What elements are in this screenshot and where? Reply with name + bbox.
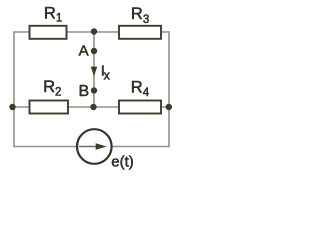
node: middle junction [90,104,96,110]
wire: right vertical [168,31,170,147]
node: right middle junction [166,104,172,110]
resistor R3 [119,5,161,39]
node: top junction [91,28,97,34]
svg-text:R2: R2 [43,78,61,98]
resistor R4 [119,79,161,114]
svg-text:A: A [79,42,89,59]
node: left middle junction [9,104,15,110]
svg-text:B: B [79,83,90,100]
resistor R2 [30,78,69,114]
current arrow Ix [91,67,98,77]
wire: left vertical [13,31,15,147]
svg-text:Ix: Ix [101,62,111,82]
wire: center vertical A-B branch [93,32,95,107]
svg-text:e(t): e(t) [111,154,134,171]
wire: middle horizontal net [13,106,169,108]
resistor R1 [30,5,67,39]
svg-text:R1: R1 [44,5,62,25]
svg-text:R3: R3 [131,5,149,26]
wire: bottom horizontal net [14,146,169,148]
wire: top horizontal net [14,31,169,33]
svg-text:R4: R4 [131,79,150,99]
node B [91,87,97,93]
node A [91,48,97,54]
current source e(t) [77,129,134,170]
